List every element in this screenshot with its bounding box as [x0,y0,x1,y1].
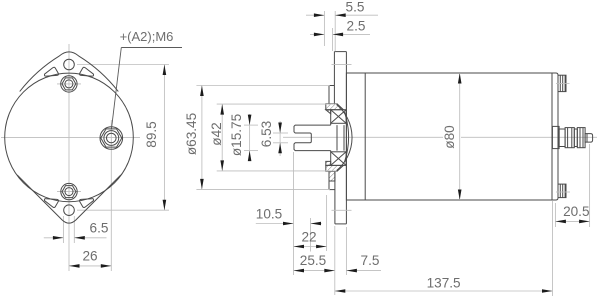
svg-text:22: 22 [301,230,316,245]
svg-text:26: 26 [82,248,97,263]
svg-text:ø42: ø42 [209,122,224,145]
svg-text:6.53: 6.53 [259,121,274,147]
svg-text:89.5: 89.5 [144,121,159,147]
svg-text:2.5: 2.5 [347,19,366,34]
svg-text:20.5: 20.5 [563,204,589,219]
svg-text:137.5: 137.5 [427,276,461,291]
svg-text:7.5: 7.5 [361,253,380,268]
svg-text:+(A2);M6: +(A2);M6 [120,29,174,44]
svg-text:25.5: 25.5 [300,253,326,268]
svg-text:ø80: ø80 [442,125,457,149]
svg-text:10.5: 10.5 [256,207,282,222]
svg-text:ø63.45: ø63.45 [184,113,199,155]
svg-text:ø15.75: ø15.75 [229,114,244,156]
svg-text:5.5: 5.5 [346,0,365,15]
svg-text:6.5: 6.5 [90,221,109,236]
